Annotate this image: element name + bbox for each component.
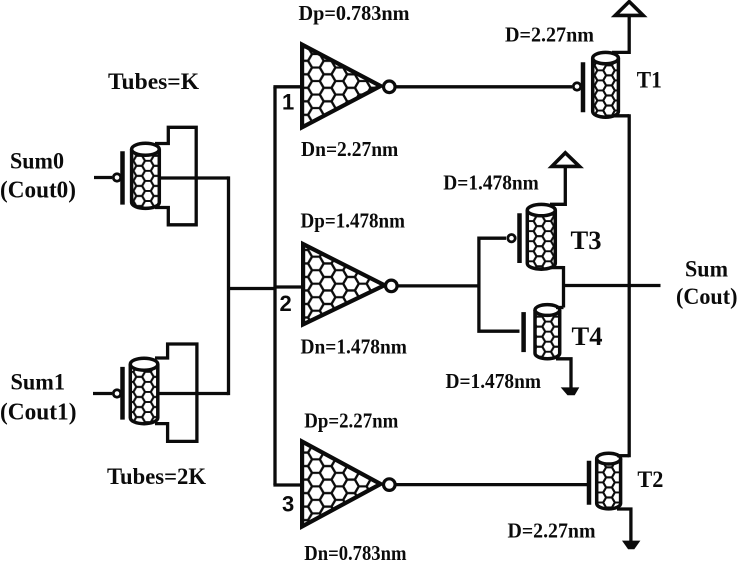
transistor M2 gate bar bbox=[120, 367, 125, 420]
transistor M1 contact bracket bbox=[155, 127, 196, 225]
svg-text:D=1.478nm: D=1.478nm bbox=[443, 171, 539, 195]
transistor T1 gate bar bbox=[581, 62, 586, 112]
wire inverter2 input bbox=[275, 285, 304, 288]
inverter 2 triangle bbox=[303, 244, 384, 324]
transistor T3 gate bar bbox=[517, 213, 522, 263]
transistor M1 output wire bbox=[159, 176, 228, 179]
svg-text:Tubes=K: Tubes=K bbox=[108, 69, 199, 94]
svg-text:Dp=1.478nm: Dp=1.478nm bbox=[301, 209, 406, 233]
svg-text:Dn=0.783nm: Dn=0.783nm bbox=[304, 541, 407, 563]
wire middle link bbox=[227, 287, 275, 290]
transistor M1 gate bubble bbox=[113, 174, 120, 181]
wire middle bus vertical bbox=[273, 87, 276, 485]
transistor T1 nanotube cylinder bbox=[593, 52, 619, 117]
wire T4 source to node bbox=[556, 306, 564, 309]
svg-text:Sum0: Sum0 bbox=[10, 149, 64, 174]
ground symbol T4 bbox=[561, 387, 580, 395]
svg-text:(Cout): (Cout) bbox=[676, 284, 738, 309]
wire T3 drain to node bbox=[550, 266, 564, 269]
svg-text:(Cout0): (Cout0) bbox=[0, 177, 76, 204]
svg-text:D=2.27nm: D=2.27nm bbox=[505, 23, 594, 47]
svg-text:Dp=0.783nm: Dp=0.783nm bbox=[299, 1, 410, 25]
svg-text:Dn=2.27nm: Dn=2.27nm bbox=[301, 137, 399, 161]
transistor T3 gate bubble bbox=[508, 235, 515, 242]
transistor M1 gate bar bbox=[120, 151, 125, 204]
transistor M1 nanotube cylinder bbox=[132, 143, 160, 208]
svg-text:T1: T1 bbox=[637, 68, 662, 93]
power VDD arrow T1 bbox=[615, 2, 643, 16]
svg-text:Dn=1.478nm: Dn=1.478nm bbox=[301, 335, 408, 359]
wire inverter2 output bbox=[398, 284, 479, 287]
transistor M2 gate lead wire bbox=[93, 392, 112, 395]
transistor T3 nanotube cylinder bbox=[527, 204, 555, 269]
transistor M2 nanotube cylinder bbox=[130, 358, 158, 424]
svg-text:2: 2 bbox=[280, 291, 292, 316]
wire VDD to T3 bbox=[550, 166, 565, 204]
svg-text:3: 3 bbox=[282, 492, 294, 517]
wire T3/T4 gate branch bbox=[479, 238, 520, 331]
wire inverter1 output to T1 bbox=[396, 85, 572, 88]
transistor T2 nanotube cylinder bbox=[597, 453, 621, 509]
transistor M2 output wire bbox=[158, 392, 229, 395]
inverter 1 triangle bbox=[302, 45, 381, 128]
inverter 1 output bubble bbox=[384, 81, 396, 93]
wire T2 source to ground bbox=[617, 509, 631, 542]
wire right bus vertical bbox=[628, 114, 631, 457]
ground symbol T2 bbox=[622, 541, 640, 550]
transistor M2 contact bracket bbox=[155, 344, 197, 441]
transistor T4 gate bar bbox=[521, 312, 526, 352]
svg-text:T2: T2 bbox=[637, 467, 663, 492]
svg-text:Sum: Sum bbox=[685, 257, 728, 282]
transistor T4 nanotube cylinder bbox=[535, 305, 560, 359]
wire T1 drain down bbox=[612, 114, 629, 117]
wire sum node vertical bbox=[562, 266, 565, 308]
transistor M1 gate lead wire bbox=[94, 176, 112, 179]
svg-text:T4: T4 bbox=[572, 322, 603, 351]
inverter 3 triangle bbox=[302, 442, 381, 527]
inverter 3 output bubble bbox=[384, 479, 396, 491]
wire inverter3 input bbox=[273, 483, 303, 486]
svg-text:D=1.478nm: D=1.478nm bbox=[446, 369, 542, 393]
power VDD arrow T3 bbox=[552, 153, 580, 167]
svg-text:D=2.27nm: D=2.27nm bbox=[508, 519, 596, 543]
svg-text:T3: T3 bbox=[571, 226, 602, 255]
wire inverter1 input bbox=[273, 85, 303, 88]
transistor T1 gate bubble bbox=[573, 83, 580, 90]
svg-text:Tubes=2K: Tubes=2K bbox=[107, 464, 206, 489]
inverter 2 output bubble bbox=[386, 280, 398, 292]
svg-text:Dp=2.27nm: Dp=2.27nm bbox=[304, 409, 398, 433]
wire T2 drain up bbox=[617, 454, 629, 457]
wire VDD to T1 bbox=[612, 15, 629, 52]
svg-text:Sum1: Sum1 bbox=[11, 370, 66, 395]
transistor M2 gate bubble bbox=[113, 390, 120, 397]
svg-text:1: 1 bbox=[282, 90, 294, 115]
wire inverter3 output to T2 bbox=[396, 483, 587, 486]
svg-text:(Cout1): (Cout1) bbox=[0, 399, 77, 426]
wire left bus vertical bbox=[227, 176, 230, 395]
wire T4 drain to ground bbox=[556, 359, 571, 389]
transistor T2 gate bar bbox=[587, 461, 592, 505]
wire Sum output bbox=[564, 284, 661, 287]
